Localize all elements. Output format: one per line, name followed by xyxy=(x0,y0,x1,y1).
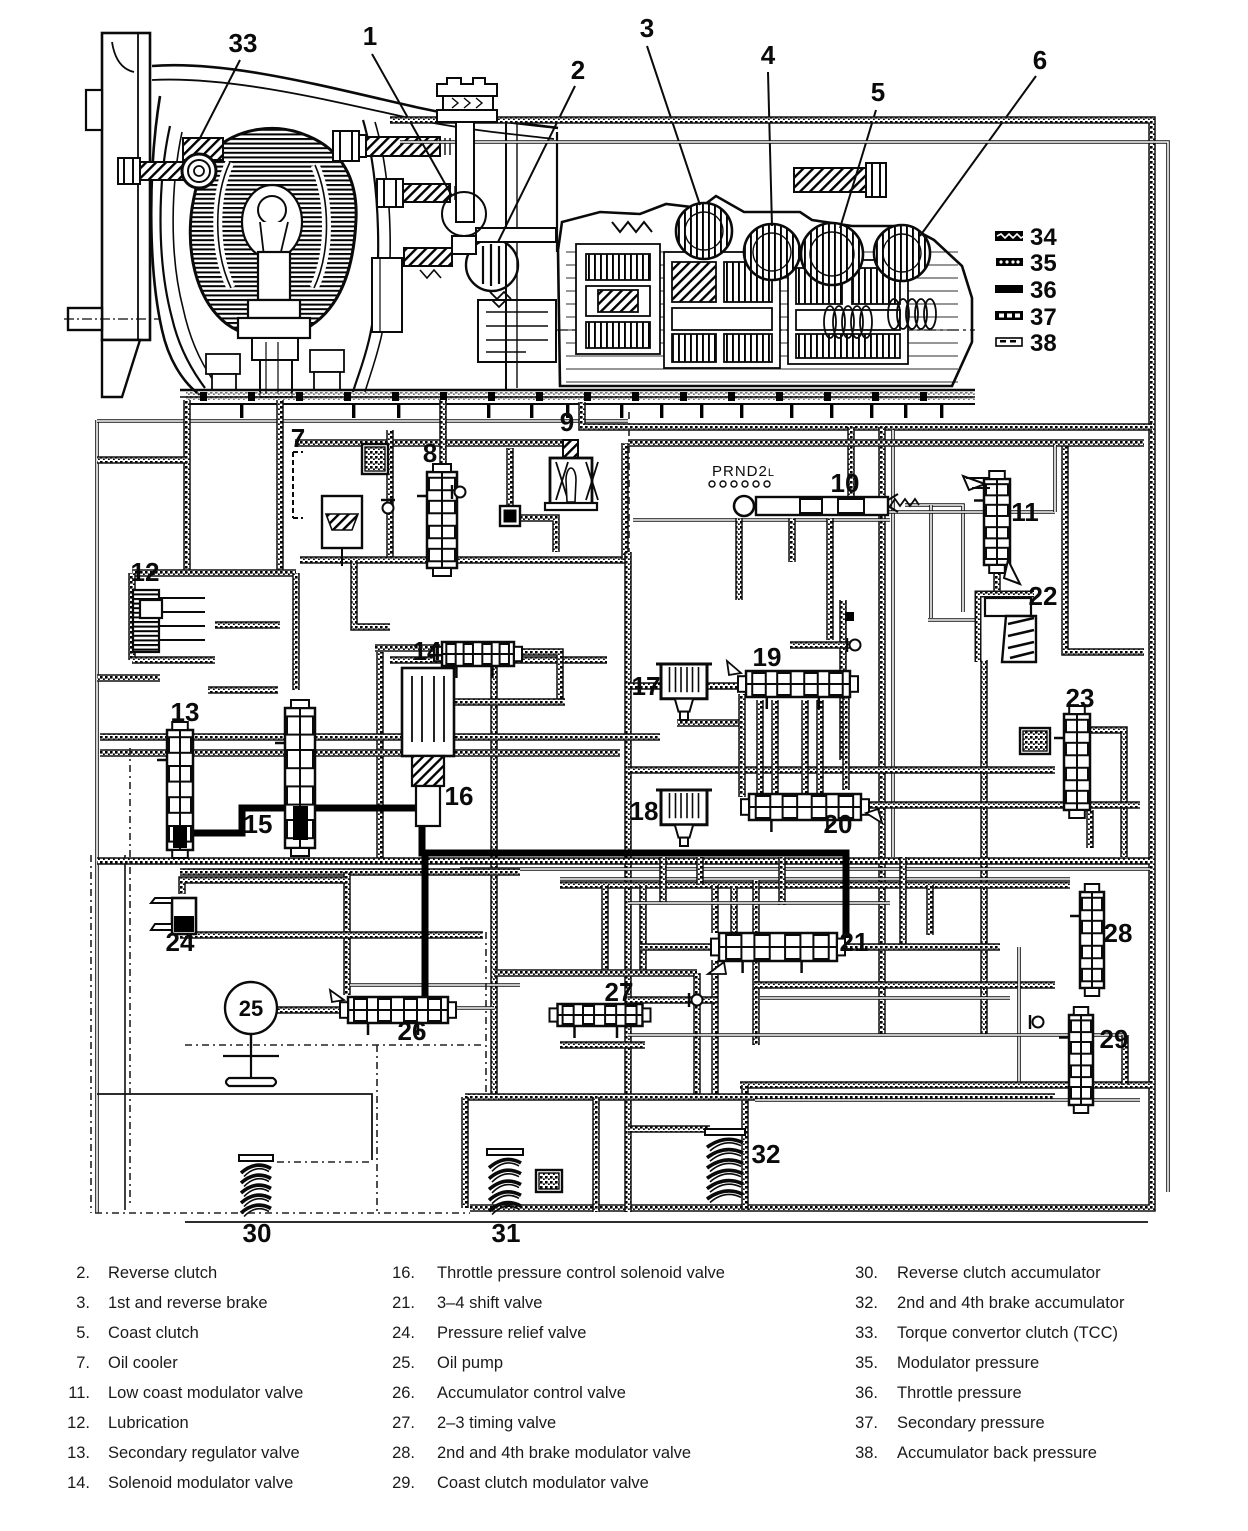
svg-text:Oil pump: Oil pump xyxy=(437,1354,503,1372)
bolt B2 xyxy=(377,179,455,207)
wire thin lower right xyxy=(755,1098,1140,1102)
svg-text:20: 20 xyxy=(824,809,853,839)
wire 21 left feed xyxy=(640,943,712,951)
svg-text:2nd and 4th brake modulator va: 2nd and 4th brake modulator valve xyxy=(437,1444,691,1462)
wire left thin x125 xyxy=(124,855,126,1210)
check valve ball D xyxy=(1030,1015,1044,1029)
svg-text:11: 11 xyxy=(1011,497,1039,527)
svg-text:7.: 7. xyxy=(76,1354,90,1372)
svg-text:19: 19 xyxy=(753,642,782,672)
valve coast modulator (23) xyxy=(1054,706,1090,818)
svg-text:Coast clutch: Coast clutch xyxy=(108,1324,199,1342)
gear cluster B xyxy=(664,252,780,368)
wire down right of 20 xyxy=(752,880,760,1045)
wire thin drop near 22 xyxy=(929,505,933,618)
valve 21 flag xyxy=(708,962,726,974)
check valve ball C xyxy=(381,500,395,514)
wire thin x1019 xyxy=(1017,947,1021,1085)
svg-text:35.: 35. xyxy=(855,1354,878,1372)
wire from 14 right xyxy=(520,652,560,700)
svg-text:24: 24 xyxy=(166,927,195,957)
svg-text:11.: 11. xyxy=(68,1384,90,1402)
wire 31 frame left xyxy=(461,1097,469,1208)
wire 19-20 link a xyxy=(738,694,746,797)
gear cluster C xyxy=(788,260,908,364)
svg-text:33: 33 xyxy=(229,28,258,58)
valve accumulator control valve (26) xyxy=(340,997,456,1035)
svg-text:2: 2 xyxy=(571,55,585,85)
solenoid shift solenoid A (17) xyxy=(656,664,712,720)
wire dash left drain xyxy=(129,748,131,1205)
legend 34 sample xyxy=(995,224,1057,251)
wire run y985 right xyxy=(754,981,1055,989)
svg-text:23: 23 xyxy=(1066,683,1095,713)
wire 19-20 link b2 xyxy=(816,700,824,795)
wire 19-20 link c xyxy=(801,700,809,795)
svg-text:21: 21 xyxy=(840,927,869,957)
svg-text:24.: 24. xyxy=(392,1324,415,1342)
valve 15 dark spool xyxy=(293,806,308,840)
wire inner frame elbow xyxy=(1065,445,1144,652)
wire 21 right out xyxy=(840,943,1000,951)
pressure relief valve (24) xyxy=(151,898,196,934)
wire dash mid left xyxy=(185,1044,485,1046)
wire thin y1035 xyxy=(628,1033,1125,1037)
housing right partition xyxy=(353,120,378,392)
valve 20 flag xyxy=(866,809,882,823)
wire run below 15 xyxy=(180,868,520,876)
wire 26-27 link xyxy=(455,1006,494,1010)
clutch detail circle clutch pack (5) xyxy=(801,223,863,285)
converter hub xyxy=(238,252,310,397)
svg-text:37.: 37. xyxy=(855,1414,878,1432)
wire main run 1 xyxy=(100,733,660,741)
wire 24 feed elbow xyxy=(182,880,347,894)
svg-text:36: 36 xyxy=(1030,277,1057,304)
valve low coast modulator valve (11) xyxy=(974,471,1010,573)
svg-text:26: 26 xyxy=(398,1016,427,1046)
wire 19-20 link d xyxy=(842,694,850,790)
wire mv down1 xyxy=(735,518,743,600)
svg-text:Reverse clutch accumulator: Reverse clutch accumulator xyxy=(897,1264,1101,1282)
svg-text:26.: 26. xyxy=(392,1384,415,1402)
wire thin y985 xyxy=(350,983,520,987)
torque converter torus (hatched) xyxy=(190,128,356,337)
valve 1-2 shift valve (19) xyxy=(738,671,858,709)
wire long left vertical xyxy=(624,552,632,1212)
check valve ball B xyxy=(452,485,466,499)
wire feed to valve 8 xyxy=(439,400,447,468)
svg-text:Accumulator back pressure: Accumulator back pressure xyxy=(897,1444,1097,1462)
svg-text:18: 18 xyxy=(630,796,659,826)
svg-text:16: 16 xyxy=(445,781,474,811)
wire feed B xyxy=(276,400,284,572)
housing outer left contour xyxy=(151,96,200,395)
valve pressure regulator (15) xyxy=(275,700,315,856)
wire down to 21 right xyxy=(899,857,907,947)
bell housing outline xyxy=(152,65,558,128)
svg-text:Pressure relief valve: Pressure relief valve xyxy=(437,1324,586,1342)
fitting fitting right of 31 xyxy=(536,1170,562,1192)
valve body interface xyxy=(180,390,975,404)
wire 16 frame left xyxy=(376,652,384,860)
turbine bulb xyxy=(258,196,286,224)
wire drop left of 9 xyxy=(506,448,514,508)
wire 27 feed b xyxy=(639,885,647,973)
valve 3-4 shift valve (21) xyxy=(711,933,845,973)
svg-text:Coast clutch modulator valve: Coast clutch modulator valve xyxy=(437,1474,649,1492)
wire thin box above 30 xyxy=(97,1094,372,1160)
svg-text:2nd and 4th brake accumulator: 2nd and 4th brake accumulator xyxy=(897,1294,1125,1312)
transmission main body outline xyxy=(558,196,972,386)
wire to regulator 13 xyxy=(97,674,160,682)
junction block xyxy=(845,612,854,621)
wire mv thin loop xyxy=(905,505,963,612)
oil cooler (7) xyxy=(293,452,362,566)
wire vertical x843 xyxy=(839,600,847,760)
svg-text:1: 1 xyxy=(363,21,377,51)
wire 21 down xyxy=(711,960,719,1097)
svg-text:10: 10 xyxy=(831,468,860,498)
interface bolts row xyxy=(200,392,927,401)
wire bottom-left dashed boundary xyxy=(95,1212,470,1214)
wire thin y903 xyxy=(628,901,890,905)
wire right drop xyxy=(1121,1035,1129,1085)
output bearing stack left xyxy=(206,354,240,390)
svg-text:13.: 13. xyxy=(67,1444,90,1462)
clutch detail circle 1st and reverse brake (3) xyxy=(676,203,732,259)
check valve ball A xyxy=(847,638,861,652)
svg-text:Reverse clutch: Reverse clutch xyxy=(108,1264,217,1282)
wire 17 to 19 xyxy=(677,719,745,727)
wire 23 to 28 xyxy=(1086,810,1094,848)
wire elbow to 16 frame xyxy=(354,560,390,627)
fitting fitting near 23 xyxy=(1020,728,1050,754)
svg-text:Throttle pressure control sole: Throttle pressure control solenoid valve xyxy=(437,1264,725,1282)
wire 19 left feed xyxy=(628,682,740,690)
wire mv thin out xyxy=(860,510,1055,514)
output bearing stack right xyxy=(310,350,344,390)
wire long run y861 xyxy=(97,857,1150,865)
svg-text:12.: 12. xyxy=(67,1414,90,1432)
wire top thin boundary xyxy=(97,419,628,423)
svg-text:27.: 27. xyxy=(392,1414,415,1432)
valve coast clutch modulator (29) xyxy=(1059,1007,1093,1113)
housing left inner contours xyxy=(161,126,206,388)
svg-text:28: 28 xyxy=(1104,918,1133,948)
wire to 32 xyxy=(628,1125,710,1133)
TCC bearing detail (33) xyxy=(182,138,223,188)
valve 2-3 shift valve (20) xyxy=(741,794,869,832)
valve body interface band xyxy=(186,392,975,401)
accumulator N-D accumulator (31) xyxy=(487,1149,523,1215)
manual valve spring xyxy=(890,499,919,506)
stator white bands xyxy=(218,162,231,288)
case right vertical edge xyxy=(556,132,558,252)
lubrication (12) xyxy=(133,590,205,652)
bolt B3 top right xyxy=(794,163,886,197)
body coil spring 2 xyxy=(824,306,872,338)
svg-text:Secondary pressure: Secondary pressure xyxy=(897,1414,1045,1432)
accumulator (9) inverted cup xyxy=(545,440,598,510)
valve 11 wings xyxy=(963,476,1020,584)
valve 19 flag xyxy=(727,661,741,675)
valve 2nd-4th brake modulator (28) xyxy=(1070,884,1104,996)
wire left stub y460 xyxy=(97,456,187,464)
wire inner frame drop xyxy=(847,427,855,500)
wire 27 frame right xyxy=(693,973,701,1095)
wire mv thin up xyxy=(1053,445,1057,512)
svg-text:5.: 5. xyxy=(76,1324,90,1342)
wire run y702 xyxy=(430,698,565,706)
svg-text:17: 17 xyxy=(632,671,661,701)
wire upper long run y427 xyxy=(582,402,1152,427)
legend 36 sample xyxy=(995,277,1057,304)
body spring 1 xyxy=(612,222,652,232)
svg-text:2.: 2. xyxy=(76,1264,90,1282)
wire left run to 9 xyxy=(295,439,563,447)
wire lube top xyxy=(132,569,296,577)
interface stub drops xyxy=(187,404,943,418)
solenoid shift solenoid B (18) xyxy=(656,790,712,846)
wire thin run y879 xyxy=(560,877,1070,881)
wire stub x663 xyxy=(659,857,667,902)
wire stub x782 xyxy=(778,857,786,905)
gear cluster A xyxy=(576,244,660,354)
accumulator 2nd-4th brake accumulator (32) xyxy=(705,1129,745,1203)
reverse inhibit block (22) xyxy=(978,594,1036,662)
wire bold throttle route (throttle pressure) xyxy=(180,798,846,938)
legend 38 sample xyxy=(996,330,1057,357)
wire 19-20 link b1 xyxy=(756,700,764,795)
wire left outer boundary xyxy=(95,420,99,1213)
oil pump (25) xyxy=(223,982,279,1086)
wire 26 feed xyxy=(343,872,351,995)
svg-text:16.: 16. xyxy=(392,1264,415,1282)
svg-text:Throttle pressure: Throttle pressure xyxy=(897,1384,1022,1402)
svg-text:Torque convertor clutch (TCC): Torque convertor clutch (TCC) xyxy=(897,1324,1118,1342)
throttle solenoid (16) xyxy=(402,668,454,826)
svg-text:1st and reverse brake: 1st and reverse brake xyxy=(108,1294,268,1312)
svg-text:Solenoid modulator valve: Solenoid modulator valve xyxy=(108,1474,293,1492)
wire left inner boundary dash xyxy=(90,855,92,1213)
wire lube right xyxy=(292,573,300,690)
wire mv down mid xyxy=(788,518,796,562)
wire lube link xyxy=(215,621,280,629)
wire thin into 22 xyxy=(928,618,980,622)
svg-text:5: 5 xyxy=(871,77,885,107)
svg-text:38: 38 xyxy=(1030,330,1057,357)
wire 16 frame right long xyxy=(490,652,498,1097)
manual valve (10) xyxy=(734,494,898,516)
wire lube left xyxy=(128,573,136,660)
wire 27 feed a xyxy=(601,885,609,973)
wire thin y998 xyxy=(760,996,1010,1000)
case boss under bolts xyxy=(372,248,556,362)
fitting cooler inlet block xyxy=(362,444,388,474)
wire 23 side loop xyxy=(1090,730,1124,857)
svg-text:32: 32 xyxy=(752,1139,781,1169)
svg-text:3: 3 xyxy=(640,13,654,43)
wire run y935 xyxy=(180,931,483,939)
svg-text:35: 35 xyxy=(1030,250,1057,277)
wire bottom left link xyxy=(628,996,715,1004)
wire valve11 to 22 xyxy=(993,568,1001,592)
wire thin vertical x893 xyxy=(891,430,895,857)
svg-text:29.: 29. xyxy=(392,1474,415,1492)
wire lube bottom xyxy=(132,656,215,664)
wire 19-20 link b xyxy=(771,700,779,795)
wire dash-dot left frame upper xyxy=(628,412,630,552)
wire check ball run xyxy=(790,641,850,649)
left engine wall xyxy=(64,33,160,397)
svg-text:29: 29 xyxy=(1100,1024,1129,1054)
wire dash right of 30 xyxy=(277,1161,372,1163)
wire stub x700 xyxy=(696,857,704,885)
regulator assembly (1) over pipes xyxy=(437,78,497,254)
svg-text:21.: 21. xyxy=(392,1294,415,1312)
case partition lines xyxy=(476,120,556,390)
svg-text:Lubrication: Lubrication xyxy=(108,1414,189,1432)
svg-text:14: 14 xyxy=(413,636,442,666)
accumulator reverse clutch accumulator (30) xyxy=(239,1155,273,1217)
legend 35 sample xyxy=(996,250,1057,277)
wire run y885 xyxy=(560,881,1070,889)
svg-text:3–4 shift valve: 3–4 shift valve xyxy=(437,1294,542,1312)
valve solenoid modulator valve (14) xyxy=(434,642,522,678)
wire main run 2 xyxy=(100,749,620,757)
svg-text:6: 6 xyxy=(1033,45,1047,75)
wire 31 frame right xyxy=(592,1097,600,1212)
wire main run right xyxy=(628,766,1055,774)
wire feed C xyxy=(386,430,394,560)
svg-text:7: 7 xyxy=(291,423,305,453)
wire long vertical x882 xyxy=(878,427,886,1035)
wire elbow below 9 xyxy=(519,518,556,552)
svg-text:3.: 3. xyxy=(76,1294,90,1312)
wire 22 down xyxy=(980,660,988,1035)
legend 37 sample xyxy=(995,304,1057,331)
wire cooler return xyxy=(300,556,625,564)
svg-text:PRND2L: PRND2L xyxy=(712,463,775,480)
wire 21 top feed xyxy=(711,885,719,933)
wire 13 to 15 xyxy=(208,686,278,694)
svg-text:31: 31 xyxy=(492,1218,521,1248)
check valve ball E xyxy=(689,993,703,1007)
wire feed A xyxy=(183,400,191,572)
fitting below 9 xyxy=(500,506,520,526)
wire mv down2 xyxy=(826,518,834,640)
wire 27 frame inner xyxy=(560,1041,645,1049)
svg-text:38.: 38. xyxy=(855,1444,878,1462)
wire to solenoid modulator 14 xyxy=(375,644,440,652)
wire outer thin boundary xyxy=(400,142,1168,1192)
valve secondary regulator valve (13) xyxy=(157,722,193,858)
reverse clutch detail circle (2) xyxy=(466,239,518,307)
wire run under 8 xyxy=(390,656,607,664)
wire lower right run xyxy=(740,1081,1150,1089)
svg-text:Modulator pressure: Modulator pressure xyxy=(897,1354,1039,1372)
svg-text:28.: 28. xyxy=(392,1444,415,1462)
converter central white region xyxy=(242,185,302,259)
wire 20 out right xyxy=(865,801,1140,809)
svg-text:37: 37 xyxy=(1030,304,1057,331)
svg-text:30: 30 xyxy=(243,1218,272,1248)
body shaft lines xyxy=(566,252,958,382)
clutch detail circle clutch pack (6) xyxy=(874,225,930,281)
wire dash vertical x377 xyxy=(376,1045,378,1213)
svg-text:30.: 30. xyxy=(855,1264,878,1282)
svg-text:13: 13 xyxy=(171,697,200,727)
svg-text:14.: 14. xyxy=(67,1474,90,1492)
svg-text:8: 8 xyxy=(423,438,437,468)
wire stub x930 xyxy=(926,885,934,935)
wire 21 top feed b xyxy=(730,886,738,933)
wire 25-26 link xyxy=(250,1006,340,1014)
body coil spring 3 xyxy=(888,299,936,329)
wire 31 frame top run xyxy=(465,1093,1055,1101)
valve 26 flag xyxy=(330,990,344,1002)
clutch detail circle coast clutch (4) xyxy=(744,224,800,280)
svg-text:9: 9 xyxy=(560,407,574,437)
svg-text:2–3 timing valve: 2–3 timing valve xyxy=(437,1414,556,1432)
wire bold down to 26 (throttle pressure) xyxy=(422,853,429,1003)
valve 13 dark spool xyxy=(173,826,187,848)
svg-text:Secondary regulator valve: Secondary regulator valve xyxy=(108,1444,300,1462)
wire bottom rule xyxy=(185,1221,1148,1223)
wire thin run y869 xyxy=(460,867,1150,871)
valve converter check valve (8) xyxy=(417,464,457,576)
wire second frame top xyxy=(628,439,1144,447)
svg-text:4: 4 xyxy=(761,40,776,70)
wire drop to 32 xyxy=(741,1085,749,1210)
svg-text:27: 27 xyxy=(605,977,634,1007)
svg-text:12: 12 xyxy=(131,557,160,587)
wire cooler up xyxy=(621,443,629,560)
svg-text:25: 25 xyxy=(239,996,263,1021)
svg-text:33.: 33. xyxy=(855,1324,878,1342)
svg-text:Accumulator control valve: Accumulator control valve xyxy=(437,1384,626,1402)
svg-text:15: 15 xyxy=(244,809,273,839)
svg-text:34: 34 xyxy=(1030,224,1057,251)
wire dash vertical x486 xyxy=(485,932,487,1100)
main shaft centerline xyxy=(556,329,975,331)
svg-text:Low coast modulator valve: Low coast modulator valve xyxy=(108,1384,303,1402)
bolt into left wall xyxy=(118,158,214,184)
svg-text:25.: 25. xyxy=(392,1354,415,1372)
svg-text:32.: 32. xyxy=(855,1294,878,1312)
wire 27 frame top xyxy=(494,969,697,977)
wire manual valve underside xyxy=(633,518,890,522)
svg-text:36.: 36. xyxy=(855,1384,878,1402)
svg-text:Oil cooler: Oil cooler xyxy=(108,1354,178,1372)
svg-text:22: 22 xyxy=(1029,581,1058,611)
valve 2-3 timing valve (27) xyxy=(550,1004,651,1038)
bolt B1 xyxy=(333,131,450,161)
wire outer supply loop xyxy=(390,120,1152,1208)
